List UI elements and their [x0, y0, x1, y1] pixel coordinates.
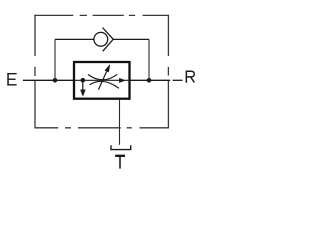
wire E port to valve inlet	[23, 79, 74, 81]
adjustment arrow (diagonal)	[98, 65, 109, 90]
port label E (drawn glyph)	[7, 73, 16, 86]
wire check-valve branch riser (right)	[148, 39, 150, 80]
wire check valve outlet	[113, 38, 149, 40]
pilot tap junction dot	[81, 78, 86, 83]
port label R (drawn glyph)	[186, 71, 194, 83]
enclosure (dashed envelope) right side	[167, 15, 169, 128]
wire enclosure edge to R port	[173, 79, 183, 81]
tank symbol	[111, 145, 131, 149]
wire check-valve branch riser (left)	[54, 39, 56, 80]
port label T (drawn glyph)	[115, 155, 125, 169]
check valve ball	[94, 32, 108, 46]
pilot arrow (downward)	[80, 80, 85, 96]
flow restrictor bottom arc	[90, 81, 119, 88]
flow control valve body (bold box)	[74, 62, 130, 99]
flow direction arrowhead on main line	[119, 78, 125, 82]
enclosure (dashed envelope) top side	[34, 14, 169, 16]
enclosure (dashed envelope) bottom side	[34, 127, 169, 129]
enclosure (dashed envelope) left side	[34, 15, 36, 128]
flow restrictor top arc	[88, 74, 117, 80]
wire to check valve inlet	[55, 38, 94, 40]
junction node at E branch	[53, 78, 58, 83]
check valve seat	[103, 28, 114, 52]
junction node at R branch	[147, 78, 152, 83]
wire to tank	[119, 99, 121, 145]
wire valve outlet to enclosure edge	[130, 79, 171, 81]
wire main flow path through valve body	[74, 79, 130, 81]
